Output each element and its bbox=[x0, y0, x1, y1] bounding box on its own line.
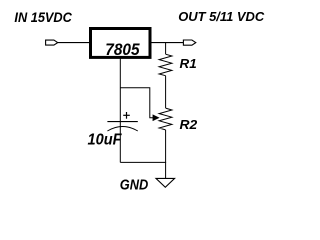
potentiometer R2 bbox=[159, 108, 197, 132]
wire R1 to R2 bbox=[165, 76, 167, 108]
svg-text:OUT 5/11 VDC: OUT 5/11 VDC bbox=[178, 9, 264, 24]
wire output node down to R1 bbox=[165, 43, 167, 55]
capacitor C1 bbox=[88, 112, 138, 149]
connector J2 (output) bbox=[183, 40, 195, 45]
wire regulator common down through capacitor to bottom bbox=[119, 58, 121, 163]
ground bbox=[120, 178, 175, 194]
wiper arrow of R2 bbox=[153, 115, 159, 121]
regulator U1 7805 bbox=[91, 29, 151, 59]
wire capacitor to ground rail bbox=[120, 161, 166, 163]
wire regulator output to connector bbox=[152, 42, 184, 44]
svg-text:10uF: 10uF bbox=[88, 132, 123, 149]
svg-text:R1: R1 bbox=[180, 57, 197, 71]
wire input to regulator bbox=[58, 42, 89, 44]
svg-text:7805: 7805 bbox=[105, 41, 140, 59]
wire R2 wiper branch bbox=[120, 88, 153, 118]
wire R2 bottom to ground bbox=[165, 130, 167, 179]
resistor R1 bbox=[159, 54, 197, 75]
svg-text:GND: GND bbox=[120, 178, 149, 194]
svg-text:R2: R2 bbox=[180, 117, 198, 132]
connector J1 (input) bbox=[46, 40, 58, 45]
svg-text:IN 15VDC: IN 15VDC bbox=[14, 9, 72, 25]
